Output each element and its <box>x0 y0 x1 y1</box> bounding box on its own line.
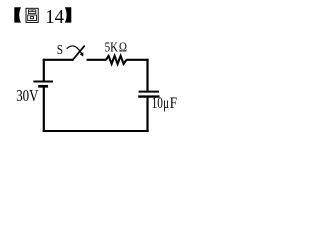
wire right vertical upper (corner to capacitor) <box>146 59 148 91</box>
svg-text:10: 10 <box>152 95 164 112</box>
wire top-middle segment (switch to resistor) <box>87 59 107 61</box>
wire bottom segment <box>43 130 149 132</box>
caption character 圖 <box>26 8 38 22</box>
capacitor C1 bottom plate <box>138 95 159 97</box>
svg-text:5K Ω: 5K Ω <box>105 39 128 54</box>
battery B1 short plate (-) <box>38 85 48 88</box>
switch arrowhead <box>80 52 84 56</box>
caption bracket 【 <box>14 7 21 22</box>
wire left vertical upper (corner to battery) <box>43 59 45 81</box>
wire top-right segment (resistor to right corner) <box>126 59 148 61</box>
switch blade <box>72 46 85 61</box>
wire right vertical lower (capacitor to bottom) <box>146 98 148 132</box>
svg-text:S: S <box>57 42 63 57</box>
caption bracket 】 <box>65 7 71 22</box>
svg-text:14: 14 <box>45 6 64 28</box>
battery B1 long plate (+) <box>33 81 53 83</box>
wire left vertical lower (battery to bottom) <box>43 87 45 132</box>
wire top-left segment <box>43 59 74 61</box>
capacitor C1 top plate <box>139 91 159 93</box>
resistor R (5KΩ) zigzag <box>106 56 126 64</box>
svg-text:F: F <box>170 95 177 112</box>
svg-text:30V: 30V <box>16 86 38 105</box>
switch motion arc <box>67 46 82 54</box>
svg-text:μ: μ <box>163 95 169 112</box>
